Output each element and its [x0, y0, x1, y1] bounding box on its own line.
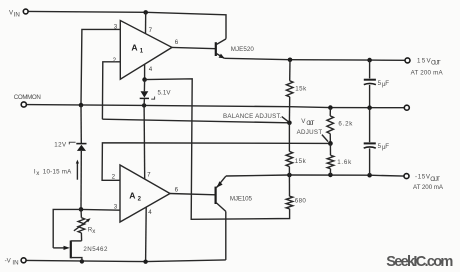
- wire pin 4 A1: [144, 64, 146, 79]
- wire pin 3 A1 to COMMON: [81, 29, 120, 105]
- svg-text:A: A: [131, 42, 137, 52]
- zener D1 5.1V: [143, 80, 145, 92]
- transistor Q1 MJE520: [215, 42, 217, 56]
- current arrow Ix: [76, 163, 78, 180]
- svg-text:3: 3: [114, 203, 118, 210]
- svg-text:12V: 12V: [54, 142, 67, 149]
- wire Vout adjust line to A2 pin 2: [102, 143, 330, 181]
- svg-text:10-15 mA: 10-15 mA: [43, 168, 72, 175]
- wire balance line: [102, 119, 289, 123]
- node balance adjust: [287, 121, 292, 126]
- terminal -V_IN: [21, 258, 26, 263]
- terminal +15V OUT: [405, 58, 410, 63]
- svg-text:6: 6: [175, 186, 179, 193]
- wire -15V rail: [226, 175, 404, 176]
- node -Vin/FET: [80, 259, 84, 263]
- svg-text:2: 2: [112, 173, 116, 180]
- svg-text:680: 680: [295, 198, 307, 205]
- svg-text:6: 6: [175, 39, 179, 46]
- wire pin 2 A1 to balance line: [102, 62, 120, 119]
- wire zener node to A2 pin 7: [143, 105, 146, 179]
- svg-text:15V: 15V: [417, 57, 431, 64]
- svg-text:IN: IN: [12, 259, 18, 266]
- svg-text:A: A: [129, 190, 135, 200]
- svg-text:15k: 15k: [295, 86, 307, 93]
- transistor Q2 MJE105: [215, 187, 217, 204]
- node -15V/1.6k: [328, 173, 333, 178]
- svg-text:MJE520: MJE520: [231, 46, 255, 53]
- svg-text:OUT: OUT: [306, 120, 314, 127]
- node +15V/cap: [367, 58, 372, 63]
- svg-text:4: 4: [148, 209, 152, 216]
- svg-text:COMMON: COMMON: [14, 94, 41, 101]
- wire A2 pin 4 to -Vin rail: [145, 207, 148, 262]
- wire A2 output pin 6: [170, 194, 216, 195]
- svg-text:SeekIC.com: SeekIC.com: [386, 254, 453, 270]
- node -15V/15k680: [287, 173, 292, 178]
- wire MJE105 collector to -Vin rail: [225, 211, 227, 260]
- node Rx top: [79, 207, 84, 212]
- wire top rail V_IN: [28, 11, 226, 38]
- terminal COMMON: [21, 102, 26, 107]
- svg-text:5.1V: 5.1V: [158, 89, 172, 96]
- svg-text:OUT: OUT: [430, 176, 440, 183]
- resistor R3 6.2k: [329, 108, 331, 116]
- svg-text:1.6k: 1.6k: [337, 159, 352, 166]
- svg-text:7: 7: [149, 27, 153, 34]
- svg-text:2: 2: [113, 57, 117, 64]
- wire pin 7 A1: [145, 12, 147, 33]
- resistor R5 680: [286, 196, 293, 209]
- node A1 pin4: [142, 77, 147, 82]
- wire A1 output pin 6: [172, 47, 216, 48]
- svg-text:-V: -V: [5, 258, 12, 265]
- svg-text:AT 200 mA: AT 200 mA: [413, 184, 444, 191]
- wire COMMON rail: [26, 105, 404, 108]
- svg-text:F: F: [385, 80, 389, 87]
- node -15V/cap2: [367, 173, 372, 178]
- svg-text:-15V: -15V: [415, 174, 431, 181]
- svg-text:BALANCE ADJUST.: BALANCE ADJUST.: [223, 113, 282, 120]
- zener D2 12V: [80, 105, 82, 143]
- svg-text:OUT: OUT: [431, 60, 441, 67]
- svg-text:AT 200 mA: AT 200 mA: [411, 69, 444, 76]
- terminal V_IN: [23, 9, 28, 14]
- node Vout adjust: [328, 141, 333, 146]
- rheostat Rx: [80, 209, 82, 217]
- wire pin4 node to 680 bottom rail: [145, 79, 290, 220]
- wire gate box: [53, 209, 81, 248]
- capacitor C2 5uF: [369, 108, 371, 143]
- wire A2 pin 3: [81, 208, 120, 211]
- node COMMON/zener5.1: [142, 103, 146, 107]
- op-amp A2: [120, 165, 170, 222]
- wire -Vin rail: [26, 260, 226, 262]
- resistor R2 15k lower: [288, 123, 290, 152]
- op-amp A1: [120, 21, 172, 80]
- svg-text:15k: 15k: [295, 158, 307, 165]
- node COMMON/cap2: [367, 105, 372, 110]
- FET Q3 2N5462: [70, 241, 72, 259]
- wire +15V rail: [224, 58, 405, 60]
- svg-text:2N5462: 2N5462: [83, 246, 108, 253]
- resistor R1 15k upper: [289, 60, 291, 81]
- svg-text:MJE105: MJE105: [230, 196, 253, 203]
- resistor R4 1.6k: [329, 143, 331, 155]
- svg-text:5: 5: [378, 143, 382, 150]
- node COMMON/6.2k: [328, 105, 333, 110]
- terminal -15V OUT: [404, 174, 409, 179]
- node +15V/15k: [288, 58, 293, 63]
- svg-text:4: 4: [149, 66, 153, 73]
- node COMMON/pin3: [79, 103, 84, 108]
- node top rail / pin7 junction: [143, 10, 148, 15]
- svg-text:7: 7: [147, 171, 151, 178]
- node -Vin/A2pin4: [143, 260, 147, 264]
- svg-text:ADJUST: ADJUST: [297, 129, 323, 136]
- capacitor C1 5uF: [369, 60, 371, 78]
- terminal common right: [404, 105, 409, 110]
- svg-text:F: F: [385, 143, 389, 150]
- svg-text:5: 5: [378, 80, 382, 87]
- svg-text:3: 3: [114, 23, 118, 30]
- svg-text:IN: IN: [14, 11, 20, 18]
- svg-text:6.2k: 6.2k: [338, 121, 353, 128]
